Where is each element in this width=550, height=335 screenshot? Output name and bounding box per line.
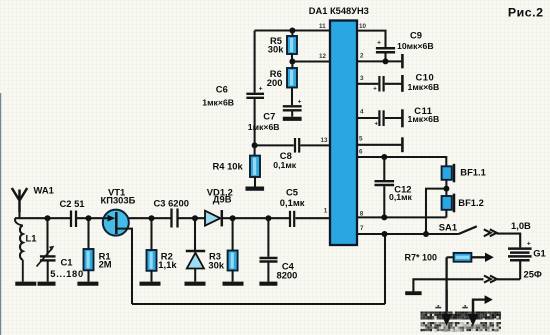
svg-text:C8: C8 [280, 150, 292, 161]
svg-text:7: 7 [360, 225, 364, 232]
svg-text:BF1.1: BF1.1 [460, 167, 486, 178]
svg-text:1,0В: 1,0В [511, 220, 531, 231]
svg-text:WA1: WA1 [34, 185, 54, 196]
svg-text:1мк×6В: 1мк×6В [248, 122, 280, 132]
svg-text:30k: 30k [268, 44, 284, 55]
svg-text:G1: G1 [533, 247, 546, 258]
svg-text:C3 6200: C3 6200 [154, 198, 189, 209]
svg-text:C10: C10 [416, 72, 435, 83]
svg-text:2M: 2M [99, 258, 112, 269]
svg-text:DA1 К548УН3: DA1 К548УН3 [309, 6, 369, 16]
svg-text:SA1: SA1 [439, 222, 457, 233]
svg-text:3: 3 [360, 75, 364, 82]
svg-text:C1: C1 [61, 256, 73, 267]
svg-text:C6: C6 [216, 83, 228, 94]
svg-text:R7* 100: R7* 100 [405, 253, 438, 263]
svg-text:1,1k: 1,1k [158, 259, 177, 270]
svg-text:10мк×6В: 10мк×6В [397, 41, 434, 51]
svg-text:+: + [377, 39, 381, 46]
svg-text:8200: 8200 [277, 269, 298, 280]
svg-text:+: + [259, 86, 263, 93]
svg-text:12: 12 [319, 53, 327, 60]
svg-text:КП303Б: КП303Б [101, 194, 136, 205]
svg-text:6: 6 [359, 149, 363, 156]
svg-text:2: 2 [360, 53, 364, 60]
svg-text:C7: C7 [263, 110, 275, 121]
svg-text:1: 1 [324, 207, 328, 214]
svg-text:0,1мк: 0,1мк [280, 197, 305, 208]
svg-text:5: 5 [359, 136, 363, 143]
svg-text:+: + [375, 121, 379, 127]
svg-text:+: + [373, 87, 377, 93]
svg-text:+: + [298, 98, 302, 105]
svg-text:1мк×6В: 1мк×6В [408, 82, 440, 92]
svg-text:C2 51: C2 51 [60, 198, 85, 209]
svg-text:4: 4 [360, 109, 364, 116]
svg-text:+: + [527, 240, 531, 247]
svg-text:13: 13 [321, 137, 329, 144]
svg-text:1мк×6В: 1мк×6В [202, 98, 234, 108]
svg-text:BF1.2: BF1.2 [458, 197, 484, 208]
svg-text:10: 10 [359, 23, 367, 30]
svg-text:25Ф: 25Ф [524, 268, 542, 279]
svg-text:0,1мк: 0,1мк [389, 192, 413, 202]
svg-text:Рис.2: Рис.2 [508, 5, 544, 19]
svg-text:R4 10k: R4 10k [213, 161, 244, 172]
svg-text:C9: C9 [410, 30, 422, 41]
svg-text:1мк×6В: 1мк×6В [408, 114, 440, 124]
svg-text:C5: C5 [286, 186, 298, 197]
svg-text:200: 200 [267, 77, 283, 88]
svg-text:11: 11 [319, 23, 326, 30]
svg-text:5...180: 5...180 [50, 268, 84, 279]
svg-text:L1: L1 [26, 233, 37, 244]
svg-text:30k: 30k [208, 259, 224, 270]
svg-text:Д9В: Д9В [213, 194, 232, 205]
svg-text:0,1мк: 0,1мк [273, 160, 297, 170]
